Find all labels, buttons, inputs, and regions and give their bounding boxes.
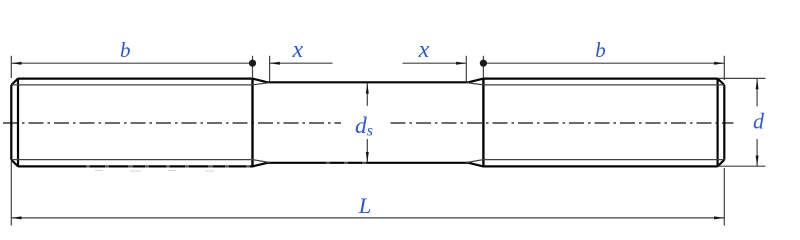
svg-text:x: x (291, 37, 303, 63)
arrow x right (456, 62, 466, 65)
left thread end line (251, 78, 253, 168)
extension lines (11, 56, 765, 226)
ext d bottom (719, 165, 766, 167)
left root bottom (12, 159, 253, 161)
arrowheads (11, 62, 758, 220)
dim line x left (270, 62, 333, 64)
dim line b left (11, 62, 252, 64)
left top runout slope (253, 79, 268, 83)
svg-text:L: L (358, 193, 372, 218)
ext L left (10, 162, 12, 226)
arrow x left (270, 62, 280, 65)
right root top (483, 84, 723, 86)
ext dot left (252, 56, 254, 79)
arrow ds down (366, 152, 369, 162)
centerline left of ds label (3, 122, 341, 124)
left end face (10, 85, 12, 160)
right end face (723, 85, 725, 160)
left root top taper (253, 83, 270, 85)
thread root thin lines (12, 83, 724, 163)
left chamfer base (17, 78, 19, 167)
left top chamfer (11, 79, 18, 85)
arrow b right (714, 62, 724, 65)
right root top taper (466, 83, 483, 85)
svg-text:d: d (753, 108, 765, 133)
dim line d lower (756, 139, 758, 166)
arrow ds up (366, 83, 369, 93)
svg-text:x: x (418, 37, 430, 63)
arrow L right (714, 216, 724, 219)
right top runout slope (468, 79, 483, 83)
left bottom chamfer (11, 160, 18, 167)
left thread crest bottom (18, 165, 253, 167)
dot terminator left (249, 60, 256, 67)
right thread crest top (483, 77, 717, 79)
stud body outline (11, 78, 724, 168)
ext L right (723, 168, 725, 226)
left root top (12, 84, 253, 86)
arrow L left (11, 216, 21, 219)
dim line ds upper (366, 83, 368, 105)
dim line x right (403, 62, 467, 64)
centerline right of ds label (391, 122, 734, 124)
arrow d up (756, 79, 759, 89)
watermark specks under bottom crest (95, 170, 214, 173)
dimension lines (11, 63, 757, 218)
watermark translucent overlay on bottom-left crest (86, 165, 250, 168)
dim line d upper (756, 79, 758, 106)
ext b left (10, 56, 12, 78)
right top chamfer (718, 79, 725, 85)
right chamfer base (716, 78, 718, 167)
left thread crest top (18, 77, 253, 79)
right bottom chamfer (718, 160, 725, 167)
ext x left (269, 56, 271, 82)
right thread crest bottom (483, 165, 717, 167)
shank top (268, 81, 469, 83)
dim line b right (483, 62, 724, 64)
right bottom runout slope (468, 163, 483, 167)
arrow b left (11, 62, 21, 65)
svg-text:b: b (595, 38, 606, 62)
right root bottom (483, 159, 723, 161)
right root bottom taper (466, 160, 483, 163)
dim line L (11, 217, 724, 219)
arrow d down (756, 156, 759, 166)
shank bottom (268, 162, 469, 164)
dim line ds lower (366, 139, 368, 162)
watermark translucent patches on shank bottom (326, 162, 366, 165)
ext d top (719, 77, 766, 79)
ext x right (465, 56, 467, 82)
svg-text:b: b (120, 38, 131, 62)
left bottom runout slope (253, 163, 268, 167)
left root bottom taper (253, 160, 270, 163)
ext dot right (482, 56, 484, 79)
right thread end line (482, 78, 484, 168)
ext b right (723, 56, 725, 80)
dot terminator right (480, 60, 487, 67)
